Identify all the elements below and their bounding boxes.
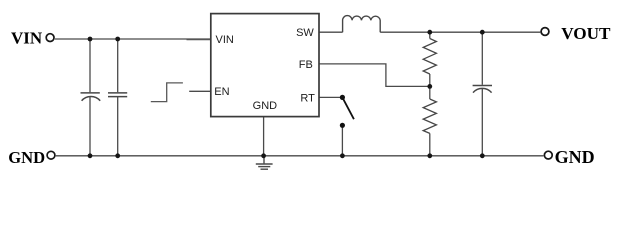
wire GND pin lead bbox=[263, 117, 265, 156]
wire resistor R1 top lead bbox=[429, 32, 431, 38]
node junction dot C3 bottom bbox=[480, 153, 485, 158]
EN step waveform source bbox=[151, 83, 183, 102]
terminal GND left circle bbox=[47, 151, 55, 159]
svg-text:VIN: VIN bbox=[11, 29, 43, 48]
svg-text:GND: GND bbox=[555, 147, 595, 167]
wire SW to inductor and output rail to VOUT bbox=[319, 31, 540, 33]
wire capacitor C3 top lead bbox=[481, 32, 483, 85]
capacitor C1 (polarized, input bulk) bbox=[81, 93, 101, 101]
svg-text:GND: GND bbox=[8, 148, 45, 167]
wire bottom ground rail bbox=[56, 155, 544, 157]
node junction dot VOUT rail C3 bbox=[480, 30, 485, 35]
node junction dot bottom rail C1 bbox=[88, 153, 93, 158]
terminal VOUT circle bbox=[541, 28, 549, 36]
svg-text:GND: GND bbox=[253, 100, 278, 112]
node junction dot ground pin bbox=[261, 153, 266, 158]
node junction dot switch ground bbox=[340, 153, 345, 158]
terminal VIN circle bbox=[46, 34, 54, 42]
wire RT pin lead bbox=[319, 96, 342, 98]
op-amp U1 regulator IC body bbox=[211, 14, 319, 117]
wire resistor R2 top lead bbox=[429, 86, 431, 99]
node junction dot divider bottom bbox=[427, 153, 432, 158]
wire capacitor C1 bottom lead bbox=[89, 97, 91, 156]
wire resistor R1 bottom lead bbox=[429, 74, 431, 86]
wire FB to divider tap bbox=[319, 64, 430, 87]
node junction dot top rail C2 bbox=[115, 37, 120, 42]
switch S1 blade bbox=[342, 97, 354, 119]
ground symbol bbox=[256, 156, 273, 169]
svg-text:VOUT: VOUT bbox=[561, 24, 611, 43]
wire capacitor C1 top lead bbox=[89, 39, 91, 92]
wire capacitor C3 bottom lead bbox=[481, 89, 483, 156]
node junction dot bottom rail C2 bbox=[115, 153, 120, 158]
capacitor C3 (polarized, output) bbox=[473, 86, 492, 93]
svg-text:EN: EN bbox=[214, 86, 229, 98]
resistor R2 (divider bottom) bbox=[423, 99, 436, 133]
wire EN pin lead bbox=[189, 90, 211, 92]
wire capacitor C2 bottom lead bbox=[117, 97, 119, 156]
node junction dot FB tap bbox=[427, 84, 432, 89]
inductor L1 bbox=[343, 16, 381, 33]
svg-text:FB: FB bbox=[299, 59, 313, 71]
node junction dot VOUT rail divider bbox=[427, 30, 432, 35]
wire VIN pin lead bbox=[187, 39, 212, 41]
node junction dot top rail C1 bbox=[88, 37, 93, 42]
switch S1 contact bottom bbox=[340, 123, 345, 128]
wire top-left rail VIN bbox=[55, 38, 211, 40]
svg-text:RT: RT bbox=[300, 92, 315, 104]
wire switch to ground rail bbox=[341, 125, 343, 156]
svg-text:SW: SW bbox=[296, 27, 314, 39]
wire capacitor C2 top lead bbox=[117, 39, 119, 92]
switch S1 contact top bbox=[340, 95, 345, 100]
terminal GND right circle bbox=[544, 151, 552, 159]
capacitor C2 (input ceramic) bbox=[108, 93, 127, 97]
wire resistor R2 bottom lead bbox=[429, 133, 431, 155]
svg-text:VIN: VIN bbox=[216, 34, 234, 46]
resistor R1 (divider top) bbox=[423, 39, 436, 75]
